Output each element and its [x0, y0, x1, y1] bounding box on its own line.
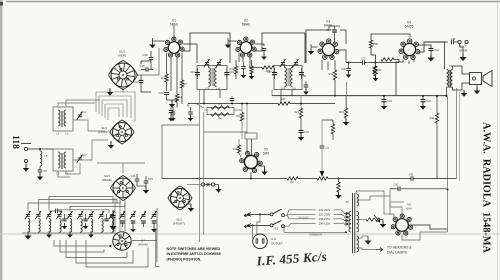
svg-text:118: 118 [10, 135, 20, 149]
coil L15 bank [102, 219, 104, 233]
capacitor C35 [224, 72, 229, 74]
electrolytic C43 [421, 99, 426, 101]
wafer S1/3 drop wires [90, 209, 92, 212]
aerial coil box L5 L6 [53, 149, 73, 171]
ground heater winding [364, 241, 371, 245]
capacitor C15 [144, 180, 149, 182]
svg-text:R21: R21 [294, 110, 299, 114]
svg-text:R41: R41 [430, 116, 435, 120]
svg-text:R5: R5 [218, 102, 222, 106]
svg-text:220-230V: 220-230V [319, 212, 331, 216]
to heaters arrow and label [357, 248, 377, 250]
wire V2 plate to IFT2 [255, 44, 264, 46]
wire wafer S1/1 to V1 [136, 48, 159, 75]
screen rail [188, 103, 278, 105]
resistor R5 [211, 106, 229, 109]
capacitor C57 bank [104, 218, 108, 220]
svg-text:NOTE SWITCHES ARE VIEWED: NOTE SWITCHES ARE VIEWED [167, 247, 221, 251]
svg-text:(FRONT): (FRONT) [173, 222, 185, 226]
trimmer C2 [78, 157, 82, 159]
svg-text:R10: R10 [230, 67, 235, 71]
resistor R36 [374, 66, 377, 76]
resistor R1 [165, 74, 168, 82]
earth terminal [24, 159, 27, 162]
mains tap wires [285, 210, 342, 215]
page top edge rule [6, 1, 500, 3]
wire grid circuit V1 [141, 61, 151, 65]
trimmer C6 bank [57, 214, 61, 216]
wires T2 to rectifier plates [357, 191, 395, 218]
capacitor C55 bank [62, 218, 66, 220]
resistor R18 [373, 66, 376, 74]
capacitor C34 [195, 72, 200, 74]
bank bottom bus [22, 232, 118, 234]
wires S2 to AC outlet [257, 214, 260, 234]
box at rectifier [390, 202, 404, 215]
rectifier tube V6 6X4 [396, 219, 409, 232]
switch S1/2 front lower wafer [171, 189, 190, 208]
wire top of wafer S1/3 [122, 163, 124, 173]
feedback resistor R30 [371, 34, 410, 40]
page right edge rule [497, 0, 499, 280]
AVC rail with series resistors [162, 178, 287, 180]
coil L16 [215, 68, 217, 87]
heater bus wires staircase [96, 92, 135, 121]
svg-text:(REAR): (REAR) [102, 178, 112, 182]
trimmer C9 bank [89, 214, 93, 216]
ground at S1/2 [108, 145, 114, 149]
svg-text:L15: L15 [205, 86, 210, 90]
tap arrowheads into primary [344, 212, 349, 215]
resistor R8 [240, 113, 243, 122]
T2 primary coil [349, 212, 351, 233]
capacitor C45 to ext speaker [424, 41, 448, 43]
ground below C36 [346, 75, 352, 78]
ground at S1/1 [107, 92, 113, 96]
coil L20 [291, 68, 293, 87]
svg-text:A.C.: A.C. [271, 237, 277, 241]
IF transformer IFT1 box [197, 66, 227, 90]
coil L2 [64, 110, 66, 126]
capacitor C23b [171, 111, 176, 113]
pickup terminals [201, 183, 204, 186]
svg-text:C1: C1 [83, 110, 87, 114]
svg-text:0H-230V: 0H-230V [299, 216, 309, 219]
svg-text:R34: R34 [339, 110, 344, 114]
resistor R41 bleeder [436, 96, 438, 113]
ground bank 2 [46, 235, 52, 238]
coil L8 bank [28, 219, 30, 233]
svg-text:(AER): (AER) [118, 54, 126, 58]
wire B+ down right [447, 96, 449, 190]
resistor R33 [333, 70, 336, 80]
resistor R22a [278, 102, 290, 105]
svg-text:OUTLET: OUTLET [271, 242, 283, 246]
trimmer C29 [281, 62, 285, 64]
svg-text:R22: R22 [281, 97, 286, 101]
svg-text:C41: C41 [409, 173, 414, 177]
svg-text:R6: R6 [218, 117, 222, 121]
coil L1 [58, 110, 60, 126]
svg-text:T2: T2 [345, 200, 349, 204]
capacitor C27 [272, 72, 277, 74]
capacitor C37 [362, 60, 364, 65]
IF transformer IFT2 box [274, 66, 302, 90]
wire V5 down [250, 172, 252, 179]
trimmer C30 [294, 62, 298, 64]
ground below IFT2 [303, 92, 309, 95]
speaker [470, 73, 482, 85]
capacitor C25 [241, 66, 246, 68]
ground at V5 [261, 172, 267, 176]
arrow to AVC rail [320, 171, 325, 177]
svg-text:100-125V: 100-125V [319, 221, 331, 225]
ground speaker frame [461, 93, 467, 97]
mains lead arrows [247, 213, 256, 217]
ground at hum pot [380, 224, 386, 228]
ground bank 3 [67, 235, 73, 238]
capacitor C14 [135, 178, 140, 180]
coil L7 [40, 151, 42, 166]
svg-text:R2: R2 [183, 82, 187, 86]
tube V4 6AQ5 [403, 43, 415, 55]
wires from aerial coils [40, 148, 53, 150]
ground below R36 [373, 78, 379, 81]
svg-text:C18: C18 [139, 64, 145, 68]
resistor R12 [237, 145, 240, 153]
resistor R22 in rail [287, 177, 298, 180]
svg-text:C21: C21 [158, 91, 164, 95]
ground below R24 [335, 195, 341, 199]
svg-text:C37: C37 [361, 57, 366, 61]
capacitor C24c [188, 111, 193, 113]
capacitor C21 [164, 92, 169, 94]
switch S2 mains [270, 213, 273, 216]
capacitor C18 [145, 67, 147, 72]
svg-text:C2: C2 [83, 153, 87, 157]
capacitor C26a [230, 98, 235, 100]
resistor R24 to ground [337, 182, 340, 192]
electrolytic cap at bank right [110, 215, 115, 217]
svg-text:6AQ5: 6AQ5 [405, 25, 414, 29]
svg-text:T1: T1 [449, 64, 453, 68]
grid box mid [162, 125, 200, 179]
wire down to rectifier [447, 190, 449, 230]
ground bank 4 [88, 235, 94, 238]
ground bank 1 [24, 236, 31, 240]
ground below C15 [143, 190, 149, 194]
ground at V1 grid [149, 45, 155, 49]
svg-text:C20: C20 [142, 53, 148, 57]
ground below R3 [169, 104, 175, 108]
resistor R35 [331, 124, 334, 134]
coil L9 bank [39, 219, 41, 233]
ground speaker 2 [474, 91, 480, 95]
svg-text:(PHONO) POSITION.: (PHONO) POSITION. [167, 258, 202, 262]
capacitor C36 [346, 68, 351, 70]
svg-text:C45: C45 [451, 37, 456, 41]
wire speaker return down [456, 88, 458, 179]
trimmer bank right [141, 214, 145, 216]
svg-text:C33: C33 [304, 130, 309, 134]
svg-text:L19: L19 [281, 86, 286, 90]
ground below earth terminal [23, 168, 29, 172]
svg-text:L20: L20 [292, 86, 297, 90]
wire V4 plate to output transformer [418, 42, 444, 69]
ground below bank electrolytic [109, 226, 116, 230]
capacitor C42 [397, 187, 399, 192]
ext speaker terminals [458, 40, 461, 43]
ground below C55 [62, 226, 67, 229]
hum resistor with arrow [366, 218, 380, 221]
svg-text:230-250V: 230-250V [319, 208, 331, 212]
common line and label [284, 231, 346, 233]
wires below IFT2 [280, 90, 282, 104]
svg-text:R8: R8 [236, 114, 240, 118]
svg-text:C42: C42 [394, 183, 399, 187]
wires below V4 [402, 60, 404, 63]
ground below C5 [37, 177, 43, 181]
switch S4 rear wafer [113, 232, 131, 250]
trimmer C11 bank [110, 214, 114, 216]
tap labels [316, 208, 334, 212]
resistor R6 [211, 113, 229, 116]
AC outlet [253, 234, 268, 249]
ground at pickup [215, 189, 221, 193]
capacitor C33 [299, 130, 304, 132]
svg-text:COMMON: COMMON [309, 233, 322, 237]
wires S1/3 down [114, 198, 116, 232]
wire T1 primary down [446, 88, 448, 97]
wire long vertical from IFT1 [199, 107, 201, 242]
coil L14 bank [91, 219, 93, 233]
resistor R23 in rail [317, 177, 328, 180]
svg-text:C31: C31 [302, 74, 307, 78]
coil L5 [58, 152, 60, 168]
ground at V2 grid [225, 45, 231, 49]
wires below IFT1 [203, 90, 205, 104]
coil L13 bank [81, 219, 83, 233]
T2 heater secondary [357, 236, 359, 252]
T2 HT secondary [357, 194, 359, 206]
svg-text:R30: R30 [373, 42, 378, 46]
svg-text:C15: C15 [148, 177, 153, 181]
resistor R21 [299, 108, 302, 118]
tube V3 6AV6 [322, 43, 334, 55]
capacitor C4x [320, 145, 325, 147]
ground below C43 [420, 106, 426, 110]
trimmer C4 bank [36, 214, 40, 216]
wires above V5 [246, 139, 248, 153]
coil L6 [64, 152, 66, 168]
ground bank right2 [130, 229, 135, 232]
resistor R19 [381, 58, 394, 61]
ground below ext spkr [459, 57, 466, 61]
resistor R34 [344, 108, 347, 118]
phono arrows [244, 214, 250, 217]
ground small [170, 118, 175, 121]
resistor R3 [175, 94, 178, 102]
wires below V1 [166, 53, 168, 75]
V3 grid loop box [306, 30, 329, 63]
svg-text:L16: L16 [216, 86, 221, 90]
svg-text:6BA6: 6BA6 [242, 23, 250, 27]
trimmer C5 bank [47, 214, 51, 216]
svg-text:C4: C4 [325, 146, 329, 150]
tube V2 6BA6 [240, 42, 252, 54]
capacitor C5 [38, 169, 43, 171]
wires below V3 [321, 60, 323, 70]
svg-text:(FRONT): (FRONT) [98, 130, 110, 134]
ground below C26 [261, 57, 267, 60]
resistor R10 [234, 66, 237, 74]
ground below C44 [427, 58, 434, 62]
svg-text:C16: C16 [190, 70, 195, 74]
wire V3 plate [338, 50, 346, 63]
svg-text:C27: C27 [267, 70, 272, 74]
resistor R2 [180, 80, 183, 88]
switch S1/1 AER wafer [111, 63, 135, 87]
T2 main secondary [357, 212, 359, 233]
coil L16 bank [112, 219, 114, 233]
coil L15 [209, 68, 211, 87]
wire to V5 grid box [204, 131, 247, 133]
page fold line [0, 233, 500, 235]
svg-text:200-215V: 200-215V [319, 217, 331, 221]
capacitor C24 [169, 110, 174, 112]
capacitor C56 bank [83, 218, 87, 220]
svg-text:C5: C5 [43, 169, 47, 173]
aerial coil box L1 L2 [53, 107, 73, 131]
ground below C25 [241, 75, 247, 78]
capacitor C20 [149, 57, 154, 59]
ground below R34 [343, 122, 349, 126]
rectifier output wires [402, 232, 448, 240]
ground below C56 [83, 226, 88, 229]
svg-text:R12: R12 [233, 147, 238, 151]
trimmer bank right [152, 214, 156, 216]
bank top wires [28, 203, 121, 211]
svg-text:C43: C43 [426, 99, 431, 103]
svg-text:6X4: 6X4 [406, 207, 412, 211]
trimmer C10 bank [99, 214, 103, 216]
trimmer C32 [205, 62, 209, 64]
tap connect to primary [341, 210, 344, 213]
svg-text:DIAL LAMPS: DIAL LAMPS [387, 251, 408, 255]
trimmer C33 [217, 62, 221, 64]
wires below V2 [238, 53, 240, 63]
trimmer bank right [120, 214, 124, 216]
svg-text:(REAR): (REAR) [138, 243, 148, 247]
parallel resistors R5 R6 loop [207, 108, 234, 111]
svg-text:R36: R36 [377, 68, 382, 72]
svg-text:C44: C44 [434, 48, 439, 52]
ground below C24 [168, 118, 174, 121]
wires speaker [453, 66, 470, 74]
coil L11 bank [60, 219, 62, 233]
coil L19 [285, 68, 287, 87]
switch S1/3 rear wafer [113, 178, 133, 198]
svg-text:R3: R3 [178, 95, 182, 99]
B+ rail [272, 95, 448, 97]
svg-text:IN EXTREME ANTI-CLOCKWISE: IN EXTREME ANTI-CLOCKWISE [167, 252, 222, 256]
tube V5 6M5 [244, 155, 257, 168]
electrolytic C39 [382, 99, 387, 101]
capacitor C41 [410, 176, 412, 181]
svg-text:C36: C36 [341, 67, 346, 71]
capacitor C44 [418, 45, 431, 48]
coil L12 bank [70, 219, 72, 233]
capacitor C31 [299, 72, 304, 74]
wire rectifier plate loop [389, 189, 391, 196]
svg-text:6AV6: 6AV6 [324, 24, 332, 28]
coil L10 bank [49, 219, 51, 233]
trimmer C1 [78, 114, 82, 116]
svg-text:C39: C39 [387, 99, 392, 103]
wire bracket at note [156, 228, 160, 267]
svg-text:TO HEATERS &: TO HEATERS & [387, 246, 412, 250]
trimmer C8 bank [78, 214, 82, 216]
trimmer C3 bank [26, 214, 30, 216]
ground at V3 [308, 51, 314, 55]
svg-text:6M5: 6M5 [263, 152, 269, 156]
resistor R26 [262, 66, 274, 69]
capacitor C28 [332, 29, 337, 31]
svg-text:R2: R2 [290, 180, 294, 184]
capacitor C17 [139, 80, 144, 82]
ground bank right [151, 229, 157, 232]
tube V1 6BE6 [168, 42, 180, 54]
wire R33 junction to rail [346, 82, 348, 108]
capacitor C54 bank [55, 209, 57, 214]
capacitor C30a [304, 84, 309, 86]
svg-text:SPKR.: SPKR. [459, 49, 468, 53]
svg-text:S2: S2 [275, 227, 279, 231]
resistor R11 [250, 66, 253, 74]
wire V1 plate to IFT1 [183, 44, 197, 63]
trimmer C7 bank [68, 214, 72, 216]
ground below C39 [381, 106, 387, 110]
switch S1/2 front wafer [113, 123, 132, 142]
capacitor C26 [262, 48, 267, 50]
page left edge rule [0, 0, 2, 280]
wire S4 to right vertical [132, 240, 157, 242]
bank lower sweep wires into S4 [54, 240, 108, 246]
svg-text:A.W.A. RADIOLA 1548-MA: A.W.A. RADIOLA 1548-MA [481, 122, 492, 253]
ground below C33 [298, 137, 304, 141]
svg-text:R1: R1 [161, 76, 165, 80]
svg-text:L7: L7 [44, 154, 48, 158]
svg-text:C14: C14 [131, 174, 136, 178]
ground below R11 [249, 76, 255, 79]
svg-text:R33: R33 [329, 72, 334, 76]
trimmer bank right [131, 214, 135, 216]
aerial terminal [24, 147, 27, 150]
ground at S1/2 front [188, 208, 194, 212]
